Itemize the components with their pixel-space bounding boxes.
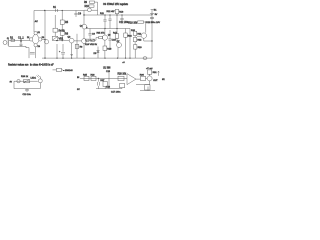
svg-text:J1: J1	[7, 38, 9, 40]
wire Q3 emitter	[83, 43, 85, 58]
svg-text:R32: R32	[128, 35, 133, 37]
wire rail C drop right	[129, 29, 131, 59]
svg-text:C4: C4	[78, 13, 82, 16]
trimmer VR2	[91, 39, 95, 41]
wire R13 stub	[116, 14, 118, 15]
wire Q6 emitter	[104, 40, 106, 46]
svg-text:+: +	[59, 51, 61, 53]
wire Q10 collector	[149, 74, 151, 76]
resistor R8 on drop c	[75, 44, 79, 48]
svg-text:9V: 9V	[155, 14, 158, 16]
svg-text:U1 386: U1 386	[103, 67, 111, 69]
svg-text:+V out: +V out	[146, 67, 153, 70]
wire mid signal	[56, 40, 69, 42]
node rail B c5	[104, 14, 105, 15]
battery B1 tick	[151, 9, 154, 11]
wire amp lower rail	[96, 88, 122, 90]
svg-text:R24 1k: R24 1k	[21, 76, 29, 78]
wire Q9 top stub	[39, 77, 41, 79]
svg-text:D3: D3	[42, 37, 44, 39]
svg-text:8R: 8R	[162, 79, 165, 81]
wire jog to Q6 base	[96, 38, 99, 41]
transistor Q9	[38, 79, 42, 83]
svg-text:AC: AC	[35, 20, 38, 23]
svg-text:C16: C16	[106, 86, 111, 88]
svg-text:R9: R9	[84, 2, 88, 4]
diode bridge D2	[29, 38, 32, 41]
wire R4 stub	[54, 15, 56, 36]
node R6 to signal	[62, 40, 63, 41]
svg-text:R6: R6	[65, 32, 69, 35]
wire R16 to bus	[104, 50, 106, 58]
svg-text:= 1N4148: = 1N4148	[63, 70, 73, 72]
resistor R25	[84, 76, 89, 80]
resistor R6 vertical	[60, 31, 64, 35]
svg-text:LED1: LED1	[31, 77, 37, 79]
resistor R29 feedback	[120, 83, 125, 87]
wire Q7 emitter	[117, 47, 119, 58]
node bridge to vertical	[44, 39, 45, 40]
wire Q3 collector	[83, 29, 85, 39]
svg-text:B1: B1	[154, 10, 157, 12]
wire R9 lead	[95, 1, 98, 3]
svg-text:S1: S1	[53, 6, 57, 9]
capacitor C4 from rail A	[74, 11, 77, 18]
transistor Q6	[102, 35, 107, 40]
node rail B c7	[116, 14, 117, 15]
svg-text:IN: IN	[77, 77, 80, 79]
svg-text:R31: R31	[153, 72, 158, 74]
wire bridge bottom lead	[35, 47, 37, 58]
svg-text:C1 .1: C1 .1	[18, 36, 24, 39]
node bus e	[83, 58, 84, 59]
wire Q8 base	[137, 35, 141, 37]
svg-text:C13 10u: C13 10u	[23, 94, 32, 96]
transistor Q3	[82, 39, 87, 44]
svg-text:D4: D4	[38, 46, 40, 48]
node bus d	[71, 58, 72, 59]
ground symbol ticks	[70, 55, 73, 56]
resistor R15 on base	[99, 37, 103, 39]
svg-text:D5: D5	[94, 53, 98, 55]
wire rail A drop to bridge	[33, 11, 35, 33]
capacitor C12 plates	[150, 17, 154, 18]
resistor R16	[103, 46, 107, 50]
wire amp left vertical	[108, 73, 110, 89]
switch S1 on rail A	[55, 9, 57, 12]
wire Q4 stub	[83, 23, 85, 25]
wire LED loop right	[39, 83, 41, 89]
wire input signal	[9, 39, 30, 41]
wire emitter node	[136, 84, 150, 86]
capacitor C13	[25, 89, 29, 92]
capacitor C14	[97, 78, 99, 88]
capacitor C5 polarized	[61, 53, 65, 59]
resistor R19 branch	[138, 21, 144, 23]
wire Q10 emitter	[149, 81, 151, 85]
wire LED loop bottom	[14, 88, 40, 90]
wire into op-amp	[109, 77, 127, 79]
svg-text:VR1: VR1	[59, 38, 64, 41]
resistor R27	[103, 82, 107, 87]
capacitor C6	[103, 15, 106, 29]
node branch rail	[151, 21, 152, 22]
resistor R21 stack top	[133, 31, 136, 35]
transistor Q2	[69, 38, 74, 43]
wire mid stage signal	[85, 39, 96, 41]
capacitor C3 plates on ground leg	[30, 53, 35, 54]
diode D5	[97, 47, 100, 59]
wire left vertical R3 branch	[44, 11, 46, 59]
svg-text:R15 47k: R15 47k	[97, 32, 106, 34]
input jack J1	[3, 41, 7, 45]
svg-text:R16: R16	[107, 49, 112, 51]
wire comb drop a	[56, 44, 58, 58]
wire Q8 collector	[145, 22, 147, 33]
svg-text:R13: R13	[119, 11, 124, 13]
node rail C q4	[116, 28, 117, 29]
wire jack ground	[9, 46, 26, 49]
node rail C q3	[104, 28, 105, 29]
svg-text:R10: R10	[85, 6, 90, 8]
svg-text:C12 100u 16V: C12 100u 16V	[146, 22, 161, 24]
resistor R24	[24, 79, 30, 82]
svg-text:R8: R8	[80, 47, 84, 49]
svg-text:Q4: Q4	[80, 25, 84, 27]
wire comb drop c	[76, 34, 78, 58]
wire R24 arrow	[24, 80, 29, 83]
op-amp U1	[127, 74, 136, 85]
node amp a	[98, 78, 99, 79]
wire R32 to bus	[125, 37, 127, 58]
wire LED loop top	[14, 80, 38, 82]
svg-text:9V: 9V	[10, 82, 13, 84]
wire R5 leads	[61, 11, 63, 32]
diode bridge D4	[34, 44, 37, 47]
wire Q5 leads	[84, 2, 98, 15]
capacitor C9 mid	[88, 29, 91, 41]
node rail B start	[83, 14, 84, 15]
node bus b	[56, 58, 57, 59]
capacitor C10	[108, 30, 111, 50]
svg-text:R28 10k: R28 10k	[118, 74, 127, 76]
transistor Q5	[88, 8, 92, 12]
resistor R14	[85, 39, 89, 41]
wire amp input	[80, 77, 109, 79]
capacitor C7	[108, 15, 111, 29]
battery B1 plates	[150, 13, 154, 14]
wire ground step	[26, 48, 29, 59]
node rail B c6	[109, 14, 110, 15]
node emitter rail	[151, 40, 152, 41]
diode bridge D1	[34, 32, 37, 35]
wire bridge right lead	[42, 38, 45, 40]
wire R6 lead down	[61, 35, 63, 40]
svg-text:D1: D1	[38, 32, 40, 34]
wire trimmer arrow	[53, 37, 57, 40]
resistor R10 top block	[89, 5, 94, 7]
node mid signal	[56, 40, 57, 41]
trimmer VR1	[52, 36, 58, 40]
diode bridge D3	[39, 38, 42, 41]
wire R29 stub	[121, 87, 123, 90]
node rail A / R3 junction	[44, 10, 45, 11]
svg-text:R22: R22	[137, 40, 142, 42]
wire op-amp output	[136, 78, 140, 80]
resistor R28 on wire	[118, 76, 124, 80]
node bus g	[117, 58, 118, 59]
wire rail A right end down	[83, 11, 85, 25]
resistor R31 above Q10	[147, 70, 151, 74]
resistor R30	[141, 76, 146, 80]
wire x117 drop	[116, 15, 118, 29]
resistor R5 vertical	[60, 20, 64, 24]
svg-text:R14 VR2 5k: R14 VR2 5k	[85, 44, 98, 46]
wire Q2 emitter	[71, 43, 73, 58]
svg-text:+9: +9	[122, 62, 125, 64]
svg-text:R12 4k7: R12 4k7	[107, 11, 116, 13]
resistor R26	[91, 76, 96, 80]
jack sleeve bar	[7, 40, 10, 46]
LED D6 arrows	[37, 75, 40, 78]
node bus a	[44, 57, 45, 58]
resistor R9 top block	[90, 1, 95, 3]
resistor R17	[115, 34, 119, 38]
wire R30 to Q10	[146, 77, 148, 79]
supply arrow	[158, 71, 160, 76]
wire VR2 arrow	[91, 39, 94, 41]
svg-text:R1: R1	[10, 36, 14, 39]
wire R23 to bus	[134, 49, 136, 58]
svg-text:R23: R23	[138, 47, 143, 49]
wire Q8 emitter	[144, 38, 152, 41]
node rail A x62	[62, 10, 63, 11]
resistor R22 stack bottom	[133, 37, 136, 41]
resistor R23	[134, 45, 137, 50]
wire branch to rail	[144, 21, 152, 23]
wire Q6 collector	[104, 29, 106, 36]
capacitor C2 to ground	[20, 40, 23, 46]
wire comb drop b	[62, 44, 64, 52]
svg-text:0V: 0V	[77, 89, 80, 91]
speaker SP1	[145, 85, 150, 90]
svg-text:C9 4700uF 25V regulato: C9 4700uF 25V regulato	[103, 3, 129, 6]
wire supply rail right	[151, 10, 153, 59]
wire LED loop left	[13, 81, 15, 88]
resistor R1	[11, 39, 15, 41]
transistor Q8	[141, 33, 146, 38]
resistor R32 body	[124, 33, 127, 37]
wire top rail A	[34, 10, 84, 12]
node rail B c8	[121, 14, 122, 15]
transistor Q7	[117, 43, 122, 48]
wire rail B	[84, 14, 152, 16]
wire R27 to rail	[104, 87, 106, 89]
resistor R32 branch	[125, 29, 127, 34]
wire Q2 to Q3	[74, 40, 81, 42]
svg-text:C in uF: C in uF	[46, 64, 54, 67]
transistor Q10	[147, 76, 152, 81]
svg-text:OUT: OUT	[153, 80, 158, 82]
wire bridge diagonals	[32, 35, 39, 44]
transistor Q1	[45, 40, 49, 44]
diode D7 on LED loop	[17, 80, 20, 83]
svg-text:D2: D2	[27, 37, 29, 39]
node bus h	[129, 58, 130, 59]
wire amp ground lower	[140, 87, 155, 91]
svg-text:Resistor values are: Resistor values are	[8, 64, 29, 67]
legend resistor symbol	[53, 69, 63, 71]
svg-text:C9: C9	[92, 34, 96, 36]
wire stack link	[134, 36, 136, 38]
capacitor C8	[120, 15, 123, 22]
svg-text:C15: C15	[106, 71, 111, 73]
wire mid rail C	[86, 28, 130, 30]
svg-text:C17 100n: C17 100n	[111, 92, 121, 94]
wire R17 lead	[116, 29, 118, 43]
node bus f	[104, 58, 105, 59]
node bus c	[62, 58, 63, 59]
resistor R13 above rail B	[115, 9, 118, 13]
capacitor C1	[20, 38, 21, 42]
wire stack to R23	[134, 42, 136, 45]
svg-text:R27: R27	[100, 80, 105, 82]
node branch collector	[145, 21, 146, 22]
ground bus	[42, 57, 152, 59]
resistor R4	[53, 28, 58, 32]
svg-text:R5: R5	[65, 21, 69, 24]
node R32 bus	[125, 58, 126, 59]
connector E1 on bus	[143, 57, 147, 60]
svg-text:R18 10k: R18 10k	[129, 22, 138, 24]
transistor Q4	[82, 24, 87, 29]
